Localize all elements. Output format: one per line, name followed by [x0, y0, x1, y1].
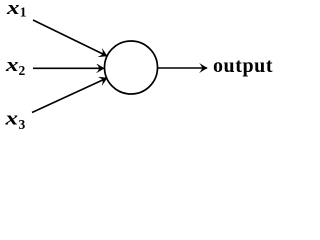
svg-text:2: 2 — [19, 63, 26, 78]
wire arrow from x1 to neuron — [33, 20, 107, 56]
svg-text:x: x — [6, 0, 20, 19]
svg-text:x: x — [4, 109, 18, 130]
svg-text:3: 3 — [19, 117, 26, 132]
neuron circle — [105, 41, 158, 94]
output wire arrow — [158, 67, 208, 69]
wire arrow from x3 to neuron — [32, 78, 107, 113]
svg-text:output: output — [213, 55, 273, 77]
svg-text:1: 1 — [20, 5, 27, 20]
wire arrow from x2 to neuron — [33, 67, 104, 69]
svg-text:x: x — [5, 55, 19, 76]
